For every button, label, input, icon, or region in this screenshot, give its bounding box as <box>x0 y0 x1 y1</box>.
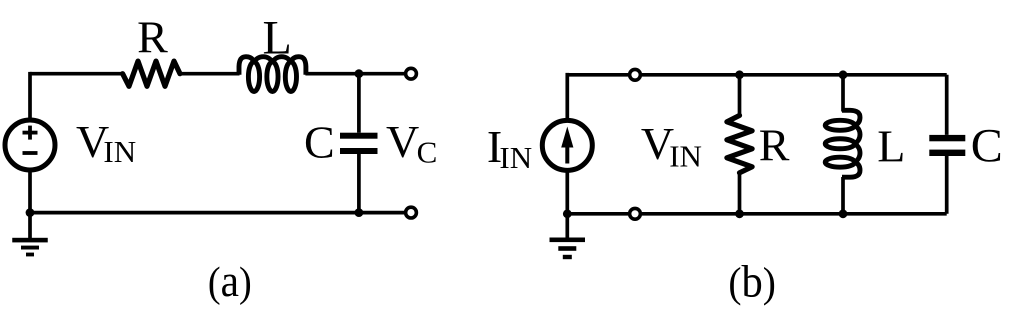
resistor R (b) zigzag <box>727 115 752 172</box>
capacitor C (a) top plate <box>340 133 378 139</box>
current source arrow shaft <box>565 144 569 164</box>
junction dot (a) top at capacitor <box>355 69 364 78</box>
wire (b) left vertical upper <box>565 73 569 121</box>
wire (a) top rail segment 1 <box>30 72 123 76</box>
capacitor C (b) bottom lead <box>945 156 949 214</box>
capacitor C (a) top lead <box>357 74 361 133</box>
wire (b) L branch upper lead <box>841 75 845 112</box>
wire (b) bottom rail segment 2 <box>642 212 947 216</box>
svg-text:C: C <box>417 135 438 170</box>
capacitor C (b) top lead <box>945 75 949 135</box>
svg-text:R: R <box>137 12 168 63</box>
wire (b) left vertical lower <box>565 170 569 213</box>
inductor L (b) coil <box>825 110 860 177</box>
ground (a) stem <box>28 213 32 238</box>
svg-text:L: L <box>263 11 292 64</box>
ground (b) bar 1 <box>550 238 586 243</box>
capacitor C (b) top plate <box>929 135 965 141</box>
junction dot (a) bottom at capacitor <box>355 208 364 217</box>
svg-text:(b): (b) <box>728 256 776 307</box>
voltage source minus sign <box>23 151 38 155</box>
wire (b) top rail segment 1 <box>567 73 628 77</box>
current source I_IN circle <box>542 120 592 170</box>
svg-text:C: C <box>971 119 1003 172</box>
svg-text:L: L <box>877 121 905 172</box>
ground (a) bar 2 <box>21 246 39 250</box>
svg-text:C: C <box>304 117 335 168</box>
junction dot (a) bottom-left <box>26 208 35 217</box>
svg-text:R: R <box>759 119 790 170</box>
wire (b) bottom rail segment 1 <box>567 212 628 216</box>
wire (b) R branch lower lead <box>738 173 742 214</box>
junction dot (b) bottom at R <box>735 209 744 218</box>
svg-text:(a): (a) <box>208 255 252 306</box>
terminal (b) bottom open circle <box>630 208 641 219</box>
wire (b) top rail segment 2 <box>642 73 947 77</box>
terminal (a) bottom open circle <box>406 207 417 218</box>
ground (b) stem <box>565 214 569 240</box>
terminal (b) top open circle <box>630 69 641 80</box>
wire (a) bottom rail <box>28 211 404 215</box>
wire (b) R branch upper lead <box>738 75 742 116</box>
svg-text:IN: IN <box>103 134 136 169</box>
svg-text:IN: IN <box>499 140 532 175</box>
capacitor C (a) bottom lead <box>357 154 361 213</box>
ground (b) bar 3 <box>563 255 572 259</box>
svg-text:V: V <box>386 116 419 167</box>
terminal (a) top open circle <box>406 68 417 79</box>
junction dot (b) top at L <box>839 70 848 79</box>
current source arrow head <box>561 127 573 148</box>
voltage source V_IN circle <box>5 120 55 170</box>
inductor L (a) coil <box>239 57 306 92</box>
junction dot (b) bottom at L <box>839 209 848 218</box>
junction dot (b) bottom-left at ground <box>563 209 572 218</box>
resistor R (a) zigzag <box>123 61 180 86</box>
junction dot (b) top at R <box>735 70 744 79</box>
voltage source plus sign <box>23 126 38 140</box>
ground (a) bar 3 <box>26 253 34 257</box>
wire (a) left vertical upper <box>28 72 32 121</box>
capacitor C (a) bottom plate <box>340 148 378 154</box>
svg-text:IN: IN <box>669 139 702 174</box>
ground (a) bar 1 <box>12 238 48 243</box>
wire (a) top rail segment 2 <box>180 72 240 76</box>
capacitor C (b) bottom plate <box>929 150 965 156</box>
wire (a) left vertical lower <box>28 170 32 213</box>
wire (a) top rail segment 3 <box>305 72 404 76</box>
ground (b) bar 2 <box>558 246 576 251</box>
wire (b) L branch lower lead <box>841 177 845 214</box>
